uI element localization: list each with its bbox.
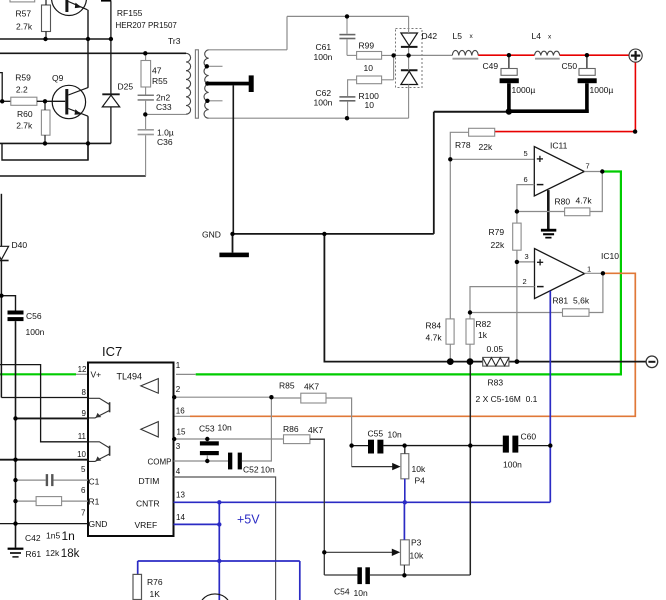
wire red to R78 — [495, 131, 635, 133]
wire R99 right — [382, 54, 409, 56]
wire corner down — [433, 112, 435, 234]
svg-text:4K7: 4K7 — [304, 382, 319, 392]
svg-text:1000µ: 1000µ — [512, 85, 536, 95]
transistor circle bottom edge — [202, 594, 228, 600]
resistor R76 — [133, 574, 142, 599]
svg-text:1: 1 — [587, 265, 591, 274]
svg-text:L4: L4 — [532, 31, 542, 41]
node dot red corner — [633, 129, 637, 133]
node dot R59 left — [0, 99, 4, 103]
node dot P3 wiper branch — [322, 550, 326, 554]
svg-text:2 X C5-16M 0.1: 2 X C5-16M 0.1 — [476, 394, 538, 404]
node dot C56 branch — [0, 294, 4, 298]
wire blue vertical x219 — [218, 502, 220, 600]
ground symbol lower left — [8, 548, 24, 550]
capacitor C61 — [339, 34, 355, 36]
svg-text:R78: R78 — [455, 140, 471, 150]
wire C61 top stem — [346, 16, 348, 33]
node dot pin10/C56 line — [13, 458, 17, 462]
wire R59 left lead — [0, 100, 11, 102]
shunt resistor R83 — [483, 357, 509, 366]
node dot line C at Q9 emitter — [86, 141, 90, 145]
svg-text:TL494: TL494 — [117, 372, 143, 382]
svg-text:5: 5 — [524, 149, 528, 158]
wire P3 bottom stem — [403, 565, 405, 575]
wire C56 vertical — [15, 321, 17, 547]
wire R100 left to C62 — [348, 80, 357, 96]
svg-text:6: 6 — [524, 175, 528, 184]
wire P3 top stem blue — [403, 502, 405, 540]
wire C33-node — [145, 101, 147, 115]
wire red L4 to plus terminal — [560, 54, 629, 56]
node dot C33/C36/primary — [143, 112, 147, 116]
wire C56 branch — [1, 296, 15, 311]
wire C54 left lead — [324, 574, 357, 576]
svg-text:10: 10 — [77, 450, 86, 459]
svg-text:7: 7 — [586, 162, 590, 171]
IC7 comparator triangle 2 — [141, 422, 159, 437]
node dot C49 top — [507, 53, 511, 57]
svg-text:10n: 10n — [218, 423, 232, 433]
wire IC11 minus stub — [517, 185, 534, 212]
svg-text:IC11: IC11 — [550, 140, 568, 150]
svg-text:R55: R55 — [152, 76, 168, 86]
op-amp IC10 — [535, 249, 585, 299]
wire IC10 output — [585, 272, 603, 274]
wire P3 wiper arrow — [324, 551, 394, 553]
node dot GND — [230, 232, 234, 236]
svg-text:R86: R86 — [283, 424, 299, 434]
svg-text:10: 10 — [365, 100, 375, 110]
svg-text:C60: C60 — [521, 432, 537, 442]
svg-text:3: 3 — [525, 252, 529, 261]
inductor L4 — [535, 51, 560, 55]
svg-text:C56: C56 — [26, 311, 42, 321]
svg-text:P3: P3 — [411, 538, 422, 548]
plus terminal — [629, 49, 642, 62]
resistor R85 — [301, 393, 326, 403]
svg-text:R99: R99 — [359, 41, 375, 51]
wire thick C50 drop — [585, 83, 589, 113]
svg-text:9: 9 — [82, 409, 87, 418]
svg-text:P4: P4 — [415, 475, 426, 485]
wire center tap thick bar — [207, 82, 250, 86]
svg-text:C33: C33 — [156, 102, 172, 112]
wire secondary top riser — [286, 16, 288, 49]
svg-text:RF155: RF155 — [117, 8, 143, 18]
svg-text:100n: 100n — [314, 98, 333, 108]
resistor R55 — [141, 61, 151, 88]
wire green IC11 output — [196, 172, 621, 375]
wire thick C49 drop — [507, 83, 511, 113]
wire thick ground bus — [507, 109, 589, 113]
resistor R61 — [36, 497, 62, 506]
pin 15 wire — [174, 438, 284, 440]
wire D42 to L5 — [409, 54, 452, 56]
node dot on line A at Q junction — [86, 37, 90, 41]
svg-text:R82: R82 — [476, 319, 492, 329]
capacitor C42 — [46, 474, 48, 486]
node dot P3 bottom — [402, 573, 406, 577]
svg-text:C1: C1 — [89, 476, 100, 486]
node dot pin15 at box — [172, 437, 176, 441]
wire C55 right to node — [383, 445, 404, 447]
svg-text:14: 14 — [176, 513, 185, 522]
node dot IC11 minus/R80 — [515, 209, 519, 213]
svg-text:10: 10 — [364, 63, 374, 73]
dashed box D42 — [396, 29, 423, 88]
diode D42 lower — [401, 69, 418, 71]
svg-text:R83: R83 — [488, 378, 504, 388]
svg-text:L5: L5 — [453, 31, 463, 41]
node dot C50 top — [585, 53, 589, 57]
wire R78 left — [450, 132, 468, 159]
node dot R83 right — [515, 359, 520, 364]
wire R55 top stub — [145, 53, 147, 60]
resistor partial top-left — [10, 0, 35, 2]
wire secondary tap 1 — [207, 65, 223, 67]
svg-text:1n: 1n — [62, 529, 75, 543]
svg-text:Tr3: Tr3 — [168, 36, 181, 46]
pin 5 wire — [16, 479, 46, 481]
svg-text:+5V: +5V — [237, 513, 260, 527]
wire R100 riser — [393, 55, 395, 79]
svg-text:VREF: VREF — [135, 520, 158, 530]
node dot IC10 plus input — [515, 260, 519, 264]
wire C55 left — [352, 445, 368, 447]
svg-text:100n: 100n — [314, 52, 333, 62]
resistor R59 — [11, 97, 37, 105]
resistor R82 — [466, 319, 474, 344]
IC7 box — [88, 363, 174, 537]
svg-text:D42: D42 — [422, 31, 438, 41]
op-amp IC11 — [534, 147, 584, 196]
wire R57 bottom stub — [45, 32, 47, 40]
wire GND horizontal — [233, 233, 434, 235]
pin 3 wire (COMP) — [174, 460, 229, 462]
center tap T-bar — [249, 75, 254, 92]
svg-text:8: 8 — [82, 388, 87, 397]
svg-text:0.05: 0.05 — [487, 344, 504, 354]
wire R84 bottom — [449, 344, 451, 361]
wire GND bar riser — [232, 234, 234, 253]
svg-text:2.7k: 2.7k — [16, 22, 33, 32]
wire secondary bottom lead — [209, 117, 409, 119]
node dot C55 left — [349, 443, 353, 447]
capacitor C55 — [368, 440, 374, 454]
wire IC11 Vminus thick — [547, 190, 550, 229]
transformer Tr3 secondary winding — [204, 50, 209, 118]
svg-text:6: 6 — [81, 486, 86, 495]
svg-text:COMP: COMP — [148, 457, 172, 466]
IC7 transistor T1 — [89, 398, 110, 404]
svg-text:100n: 100n — [26, 327, 45, 337]
svg-text:11: 11 — [78, 432, 87, 441]
inductor L5 — [452, 50, 478, 55]
capacitor C50 electrolytic — [586, 55, 588, 68]
svg-text:HER207 PR1507: HER207 PR1507 — [116, 21, 178, 30]
svg-text:12k: 12k — [46, 548, 60, 558]
svg-text:22k: 22k — [491, 240, 505, 250]
wire minus-rail riser — [324, 234, 340, 362]
svg-text:4: 4 — [176, 467, 181, 476]
bar top edge above D25 — [101, 0, 111, 2]
capacitor C52 — [228, 453, 232, 470]
svg-text:1: 1 — [176, 361, 181, 370]
wire Q-top emitter / Q9 collector vertical — [87, 10, 89, 88]
capacitor C49 electrolytic — [508, 55, 510, 68]
wire R60 bottom stub — [44, 135, 46, 143]
capacitor C53 — [200, 441, 219, 445]
pin 14 wire (VREF) — [174, 523, 220, 525]
ground symbol IC11 — [541, 229, 556, 232]
svg-text:1K: 1K — [150, 589, 161, 599]
pin 2 wire — [174, 396, 272, 398]
svg-text:C55: C55 — [368, 428, 384, 438]
node dot blue pin14 — [217, 522, 221, 526]
svg-text:4.7k: 4.7k — [426, 332, 443, 342]
svg-text:10k: 10k — [412, 464, 426, 474]
transistor Q9 — [52, 85, 88, 118]
node dot R99/R100 junction — [391, 53, 395, 57]
svg-text:R76: R76 — [147, 577, 163, 587]
wire top rail to D42 — [287, 15, 409, 17]
svg-text:R57: R57 — [16, 9, 32, 19]
resistor R84 — [446, 319, 454, 344]
resistor R100 — [357, 76, 382, 84]
ground bar symbol — [219, 253, 249, 258]
wire D42 vertical segments — [408, 16, 410, 33]
svg-text:15: 15 — [177, 428, 186, 437]
wire line A (top horizontal rail) — [0, 38, 111, 40]
svg-text:DTIM: DTIM — [139, 476, 160, 486]
svg-text:D25: D25 — [118, 82, 134, 92]
node dot bottom rail at C62 — [345, 116, 349, 120]
svg-text:3: 3 — [176, 442, 181, 451]
wire C36 stems — [145, 114, 147, 129]
capacitor C33 — [138, 95, 154, 97]
node dot top rail at C61 — [345, 14, 349, 18]
node dot pin6 — [13, 499, 17, 503]
node fat dot bus left end — [506, 108, 512, 114]
wire R79 bottom — [516, 250, 518, 361]
svg-text:GND: GND — [202, 230, 221, 240]
pin 8 wire — [1, 397, 88, 399]
node dot GND branch — [322, 232, 326, 236]
wire P4 wiper arrow — [351, 446, 353, 467]
node dot line C at R60 — [43, 141, 47, 145]
wire R82 stems — [469, 313, 471, 319]
svg-text:12: 12 — [78, 365, 87, 374]
node dot line B at R55 — [143, 51, 147, 55]
secondary tap 1 dot — [205, 64, 209, 68]
svg-text:IC10: IC10 — [601, 251, 619, 261]
svg-text:R81: R81 — [553, 296, 569, 306]
wire R79 top — [516, 212, 518, 224]
capacitor C56 — [8, 311, 24, 315]
svg-text:C49: C49 — [483, 61, 499, 71]
node dot C53 top — [205, 437, 209, 441]
svg-text:1k: 1k — [478, 330, 488, 340]
wire C61 bottom stem — [346, 39, 348, 55]
node dot blue junction pin13 — [217, 500, 221, 504]
wire blue horizontal y561 — [138, 560, 300, 562]
wire C54 right to x470 — [370, 574, 470, 576]
wire C53 stems — [206, 439, 208, 441]
node dot pin5 — [13, 478, 17, 482]
svg-text:D40: D40 — [12, 240, 28, 250]
wire node to primary bottom — [145, 113, 186, 115]
svg-text:13: 13 — [176, 491, 185, 500]
wire R55-C33 — [145, 87, 147, 95]
svg-text:CNTR: CNTR — [136, 499, 160, 509]
pin 4 wire (DTIM) — [174, 477, 276, 600]
node dot blue y561 — [217, 559, 221, 563]
svg-text:Q9: Q9 — [52, 73, 64, 83]
diode D25 — [102, 1, 119, 143]
resistor R78 — [469, 128, 495, 136]
wire IC10 plus stub — [517, 261, 535, 263]
wire pin16 stub — [174, 415, 191, 417]
wire red L5 to L4 — [478, 54, 534, 56]
wire P4 stems — [404, 446, 406, 454]
wire blue IC10 supply — [549, 291, 551, 503]
svg-text:5: 5 — [81, 465, 86, 474]
node dot IC11 plus input — [448, 157, 452, 161]
resistor R79 — [513, 223, 521, 250]
pin 7 wire — [0, 523, 88, 525]
wire Q9 emitter down — [87, 116, 89, 160]
svg-text:1000µ: 1000µ — [590, 85, 614, 95]
svg-text:R60: R60 — [17, 109, 33, 119]
potentiometer P4 — [401, 454, 409, 479]
secondary center tap dot — [205, 81, 209, 85]
inductor L4 core bar — [535, 58, 560, 60]
node dot x470 crossing — [468, 443, 472, 447]
wire R85 right riser — [326, 398, 352, 446]
zener diode D40 — [0, 246, 9, 259]
pin 11 wire — [0, 365, 88, 442]
resistor R86 — [284, 435, 310, 444]
wire line D — [2, 143, 88, 160]
node dot pin2 at box — [172, 395, 176, 399]
node big dot R82 — [467, 358, 474, 365]
node dot Q9 base / R60 top — [43, 99, 47, 103]
wire R86 right riser — [310, 439, 324, 575]
wire C60 right — [518, 445, 550, 447]
node dot P4 bottom on blue — [403, 500, 407, 504]
wire R57 top stub — [45, 0, 47, 5]
svg-text:C36: C36 — [157, 137, 173, 147]
capacitor C36 — [138, 129, 154, 131]
node dot D42 center — [406, 53, 410, 57]
wire Q9 base lead — [37, 100, 65, 102]
svg-text:2: 2 — [176, 385, 181, 394]
wire R80 right riser — [590, 172, 602, 212]
wire R80 left — [517, 211, 565, 213]
svg-text:C50: C50 — [562, 61, 578, 71]
wire pin12 stub — [76, 373, 88, 375]
svg-text:4.7k: 4.7k — [576, 196, 593, 206]
transformer Tr3 core — [195, 50, 198, 118]
potentiometer P3 — [401, 540, 410, 565]
wire GND drop from center tap — [232, 85, 234, 234]
wire blue vertical x299 — [299, 561, 301, 600]
wire green pin1 stub — [176, 373, 196, 375]
svg-text:C54: C54 — [334, 586, 350, 596]
resistor R99 — [357, 52, 382, 60]
resistor R57 — [42, 5, 51, 32]
wire IC11 plus stub — [450, 158, 534, 160]
svg-text:16: 16 — [176, 407, 185, 416]
wire secondary top lead — [209, 49, 287, 51]
svg-text:10n: 10n — [354, 588, 368, 598]
pin 6 wire — [16, 500, 37, 502]
resistor R80 — [565, 208, 590, 216]
capacitor C54 — [357, 567, 362, 584]
svg-text:C62: C62 — [316, 88, 332, 98]
svg-text:R59: R59 — [15, 73, 31, 83]
wire main minus rail — [340, 361, 646, 363]
wire node to C60 — [405, 445, 503, 447]
pin 10 wire — [0, 459, 88, 461]
capacitor C62 — [339, 96, 355, 98]
svg-text:2.7k: 2.7k — [16, 121, 33, 131]
resistor R81 — [563, 309, 590, 317]
svg-text:V+: V+ — [91, 369, 102, 379]
pin 9 wire — [16, 417, 89, 419]
wire C52 right riser — [242, 397, 272, 461]
svg-text:10n: 10n — [388, 429, 402, 439]
wire R84 riser — [449, 159, 451, 319]
IC7 comparator triangle 1 — [141, 379, 159, 394]
wire IC11 output — [584, 171, 602, 173]
pin 13 wire (CNTR) blue rail — [174, 501, 551, 503]
node dot on line A at R57 — [43, 37, 47, 41]
node dot P4 top — [402, 443, 406, 447]
node dot pin7 — [13, 521, 17, 525]
wire R60 top stub — [44, 101, 46, 110]
resistor R60 — [41, 110, 50, 135]
svg-text:C52: C52 — [243, 464, 259, 474]
wire line C (third horizontal rail) — [0, 142, 111, 144]
wire vertical x470 — [469, 362, 471, 575]
svg-text:22k: 22k — [479, 142, 493, 152]
wire R59 left bracket — [0, 73, 2, 102]
svg-text:R80: R80 — [555, 197, 571, 207]
svg-text:4K7: 4K7 — [308, 425, 323, 435]
wire R81 right riser — [589, 273, 603, 312]
diode D42 upper — [401, 33, 418, 46]
node dot IC10 output — [601, 271, 605, 275]
svg-text:C42: C42 — [25, 533, 41, 543]
svg-text:5,6k: 5,6k — [573, 296, 590, 306]
capacitor C60 — [503, 436, 509, 453]
svg-text:2: 2 — [523, 277, 527, 286]
svg-text:100n: 100n — [503, 459, 522, 469]
wire R82top to R81 — [470, 312, 563, 314]
wire red plus terminal drop — [634, 63, 636, 132]
node dot IC11 output — [600, 169, 604, 173]
minus terminal — [646, 356, 658, 368]
svg-text:10k: 10k — [410, 551, 424, 561]
wire bus to corner — [434, 111, 507, 113]
wire IC10 minus stub — [470, 287, 535, 313]
transistor Q-top (cut off at top edge) — [52, 0, 88, 16]
node dot pin2/R85/C52 — [269, 395, 273, 399]
svg-text:GND: GND — [89, 519, 108, 529]
svg-text:2.2: 2.2 — [16, 84, 28, 94]
